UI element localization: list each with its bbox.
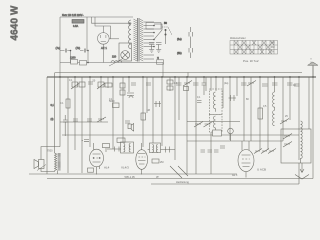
svg-text:(2a): (2a) [224,82,228,85]
resistor on AVC line [117,138,125,142]
wire switch to right [162,27,172,35]
bottom wire 1 [29,173,237,175]
svg-text:0.1: 0.1 [174,82,178,85]
cap aa [287,83,293,85]
cap q [176,83,182,85]
svg-text:(7a): (7a) [56,46,61,50]
svg-text:0.5A: 0.5A [73,25,78,28]
caps pair after T2 [164,147,172,153]
cap z [272,83,278,85]
cap o [125,121,130,123]
resistor horizontal l [113,103,120,108]
oscillator coil lower [273,111,275,126]
loop antenna box [281,129,311,163]
voltage selector box [119,43,132,61]
resistor cc [258,108,263,119]
resistor below T3 [213,130,222,136]
rail left b [59,77,61,147]
cluster boxes p [167,80,173,84]
speaker [39,160,45,169]
cap mid row extra [131,83,151,85]
diagonal wires right of tube B [170,166,188,178]
switch arm [154,24,162,40]
cap bb [294,84,300,86]
svg-text:AZ 1: AZ 1 [101,46,107,50]
resistor stack j2 [120,90,125,95]
wire down to bottom [67,122,69,173]
svg-text:0.1: 0.1 [60,102,64,105]
cathode resistor A [88,168,94,172]
vertical feeders left block [68,77,108,173]
wire drop to resistors [87,50,89,63]
junction dot c1 [70,50,72,52]
cap y [262,84,268,86]
wire segment sw [187,73,189,78]
svg-text:Heizleitung: Heizleitung [176,180,189,184]
svg-text:Wellenschalter: Wellenschalter [230,37,246,40]
caps pair n [154,101,161,107]
fuse Si [72,20,84,24]
cap near tube D [220,146,225,148]
coil cap cluster k [127,93,134,98]
svg-text:(7b): (7b) [76,46,81,50]
cathode wire [60,121,108,123]
antenna rail [312,66,314,174]
tube B VL4 [136,150,148,170]
mains switch box [146,23,161,30]
resistor vertical f [66,99,70,108]
right-middle verticals [179,77,237,174]
power transformer Tr [119,18,193,62]
winding hatch right [140,19,144,61]
pot with arrow d [97,82,105,89]
resistor horizontal e [105,83,112,87]
switch table [230,37,278,63]
main buses and wiring [41,66,316,174]
secondary taps [144,22,155,59]
pickup jack icon [128,124,131,129]
junction dot c2 [87,50,89,52]
pot arrow x [247,81,256,87]
lower section [29,121,313,184]
svg-text:VL4/3: VL4/3 [121,166,129,170]
electrolytic cap C2 [80,49,89,53]
pot arrow r [183,81,192,87]
cap h [87,119,92,121]
wire filter out [60,63,163,78]
resistor R feld 2 [80,61,87,66]
wire rectifier right [109,38,119,40]
svg-text:(1a): (1a) [177,37,182,41]
resistor R feld 1 [71,60,78,65]
IF transformer T2 [150,143,161,153]
rail to output transformer [54,73,56,154]
tiny value labels [69,79,288,118]
svg-text:U ACB: U ACB [257,168,266,172]
bus line main [47,76,316,78]
bus line upper [55,72,302,74]
pot arrow t [194,122,203,128]
junction dot r [87,62,89,64]
tap dots [153,25,155,48]
core [138,18,139,62]
T3 coil c [214,116,216,131]
oscillator coil upper [273,92,275,110]
svg-text:AM: AM [271,42,275,45]
junction dots on bus [59,76,314,78]
line tube D grid [187,140,283,142]
cap c [88,82,93,84]
svg-text:TA: TA [271,51,274,54]
IF transformer T1 [121,142,134,153]
earth arrow [300,163,304,173]
cap on rail [202,77,207,95]
bottom wire 3 [151,163,299,184]
trimmer dd [280,119,289,125]
svg-text:7000: 7000 [47,150,53,153]
AVC line [62,134,299,136]
svg-text:1200: 1200 [70,57,76,60]
anode comp A [103,144,110,148]
svg-text:2M: 2M [160,161,163,164]
svg-text:Pos. till 7u2: Pos. till 7u2 [243,59,259,63]
resistor m [141,113,146,120]
svg-text:220: 220 [112,56,117,59]
caps into tube B [113,147,122,152]
right verticals [244,77,309,160]
rectifier tube AZ1 [98,33,110,45]
tube D UCH [238,150,254,172]
trimmer row right of tube D [254,149,276,154]
resistor under T2 [152,159,159,163]
IF transformer T3 dashed box [210,89,223,132]
cap on left rail [63,115,68,136]
wire right drop [86,17,88,50]
trimmer in box [283,134,292,148]
wire mains second [92,17,132,23]
resistor stack j1 [120,83,125,88]
antenna [308,58,319,77]
comp u [204,122,213,128]
cap w [241,83,247,85]
left rail [46,77,48,174]
caps pair v [229,95,237,101]
loop coil [301,121,303,163]
output transformer primary coil [55,153,57,171]
primary winding loops [129,20,131,49]
cap s [193,83,199,85]
winding hatch left [134,19,138,61]
trimmer arrow i [97,117,106,122]
rail T3 down [210,132,212,174]
table X marks [234,41,274,55]
electrolytic cap C1 [60,49,71,53]
pot with arrow a [71,82,80,89]
middle verticals [113,77,175,160]
suppressor caps across mains [189,27,193,58]
svg-text:5000: 5000 [109,100,115,103]
speaker wires [41,169,58,175]
wire anode loop [95,17,111,39]
svg-text:FM: FM [271,46,274,49]
svg-text:(4): (4) [51,118,54,121]
svg-text:(1b): (1b) [177,51,182,55]
grid cap A [82,140,90,142]
svg-text:H: H [157,57,159,60]
svg-text:4640 W: 4640 W [10,5,21,41]
svg-text:Netz 110 125 220V~: Netz 110 125 220V~ [62,14,84,17]
svg-text:AL4: AL4 [104,166,110,170]
T3 coil a [213,92,215,112]
wire cap rail [70,51,72,64]
wire left drop [59,17,61,77]
wire rectifier top [102,26,104,33]
resistor on B+ line [157,60,164,64]
small circle component [228,128,234,134]
ground under caps [149,50,161,53]
wire rectifier bottom [102,44,104,62]
caps row before tube D [201,150,219,152]
cap g [73,119,78,121]
wire mid right [187,121,240,123]
output tube VL4 A [90,149,104,167]
wire mains top [60,16,133,18]
resistor box b [79,82,85,87]
bottom wire 2 [47,174,313,179]
caps pair mid [197,101,202,103]
capacitor block right of transformer [149,43,162,45]
wire speaker top [41,147,60,160]
choke on B+ line [111,61,122,63]
output transformer secondary winding [58,154,61,171]
